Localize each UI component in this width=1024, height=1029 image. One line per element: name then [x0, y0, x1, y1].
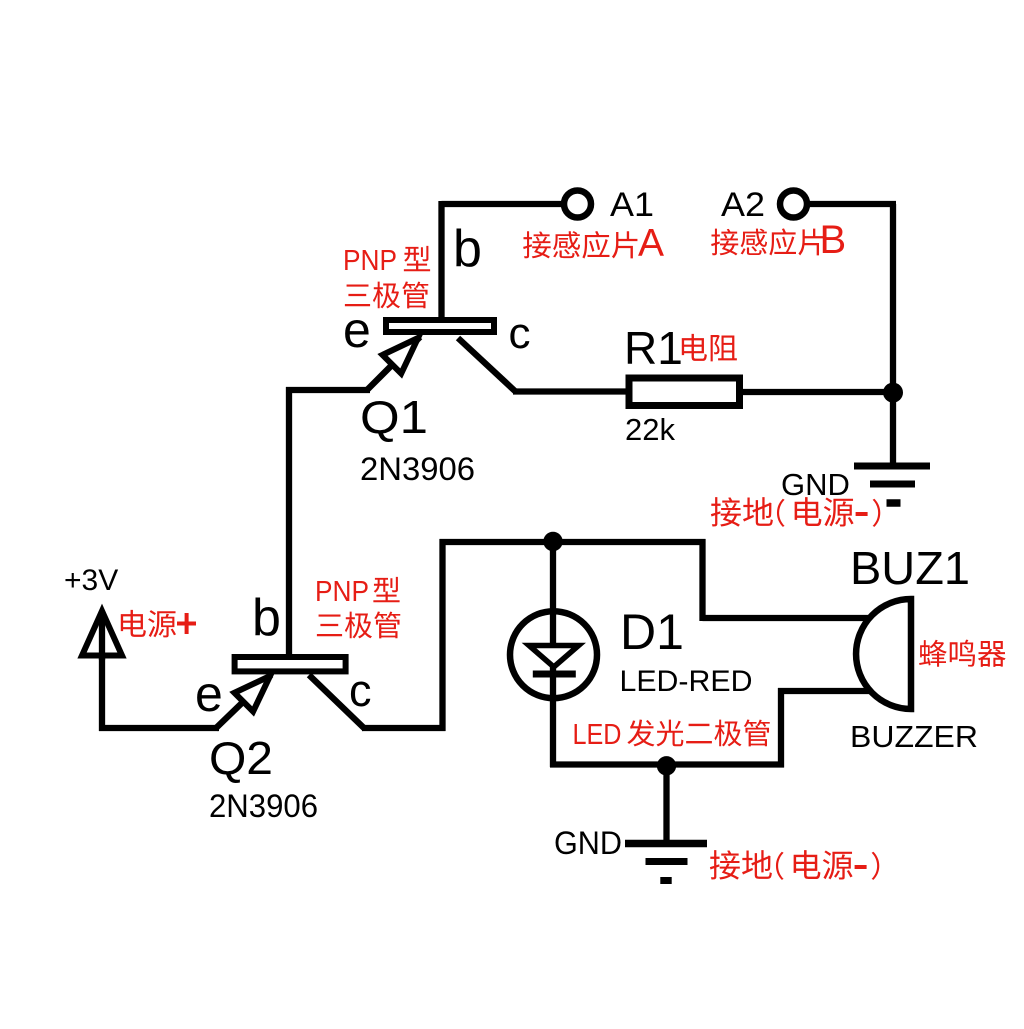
svg-text:R1: R1 [624, 322, 683, 374]
svg-text:LED: LED [573, 719, 622, 751]
svg-text:A1: A1 [610, 186, 654, 224]
svg-text:LED-RED: LED-RED [620, 665, 753, 698]
svg-text:A: A [638, 222, 664, 265]
svg-text:D1: D1 [620, 604, 684, 660]
svg-text:BUZZER: BUZZER [850, 719, 978, 754]
svg-text:Q1: Q1 [360, 391, 428, 443]
svg-text:b: b [453, 220, 482, 278]
svg-text:PNP: PNP [343, 245, 397, 277]
svg-text:b: b [252, 589, 281, 647]
svg-text:c: c [349, 665, 372, 716]
svg-text:GND: GND [781, 467, 850, 502]
svg-text:22k: 22k [625, 412, 675, 447]
svg-text:2N3906: 2N3906 [360, 451, 475, 487]
svg-text:BUZ1: BUZ1 [850, 542, 970, 594]
svg-text:Q2: Q2 [209, 732, 273, 784]
svg-text:GND: GND [554, 825, 622, 861]
svg-text:c: c [509, 309, 531, 358]
svg-text:2N3906: 2N3906 [209, 788, 318, 824]
svg-text:B: B [820, 218, 847, 262]
svg-text:+3V: +3V [64, 564, 118, 597]
svg-text:PNP: PNP [315, 576, 369, 608]
svg-text:e: e [343, 302, 371, 358]
svg-text:e: e [195, 666, 223, 722]
svg-text:A2: A2 [721, 186, 765, 224]
